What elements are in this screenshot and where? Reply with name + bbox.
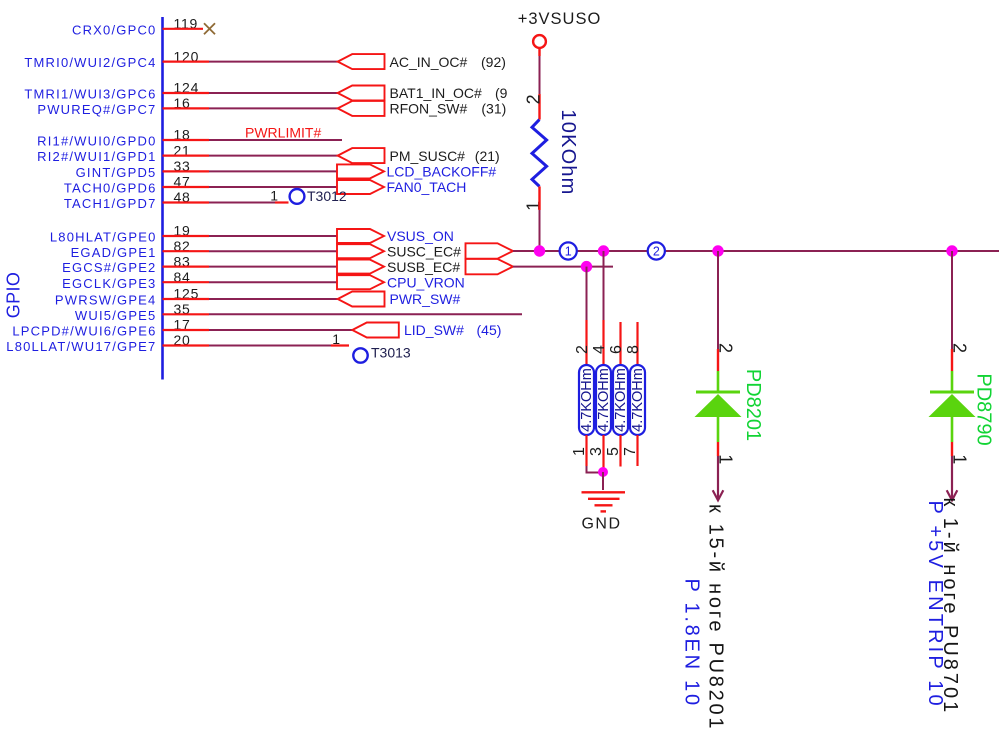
diode PD8790: [951, 251, 953, 349]
svg-text:PWR_SW#: PWR_SW#: [390, 291, 461, 307]
pin 33 GINT/GPD5 wire: [76, 158, 337, 180]
svg-text:PM_SUSC#: PM_SUSC#: [390, 148, 466, 164]
svg-text:L80LLAT/WU17/GPE7: L80LLAT/WU17/GPE7: [6, 339, 156, 354]
net arrow FAN0_TACH: [337, 180, 384, 194]
svg-text:PWUREQ#/GPC7: PWUREQ#/GPC7: [37, 102, 156, 117]
svg-text:1: 1: [270, 188, 278, 204]
svg-text:4.7KOHm: 4.7KOHm: [596, 368, 612, 432]
wire +3VSUSO to resistor pin 2: [538, 48, 540, 57]
junction dot resistor-pack pin2 tap: [581, 261, 592, 272]
ground symbol: [582, 491, 626, 493]
net arrow PWR_SW#: [338, 292, 385, 307]
svg-text:TMRI0/WUI2/GPC4: TMRI0/WUI2/GPC4: [24, 55, 156, 70]
junction dot diode PD8790 tap: [946, 245, 957, 256]
svg-text:LCD_BACKOFF#: LCD_BACKOFF#: [387, 164, 497, 180]
net arrow RFON_SW#: [338, 101, 385, 116]
pin 83 EGCS#/GPE2 wire: [62, 253, 337, 275]
resistor pack element 1 4.7KOHm: [579, 365, 594, 435]
main bus wire: [513, 250, 999, 252]
net arrow PM_SUSC#: [338, 148, 385, 163]
svg-text:10KOhm: 10KOhm: [557, 109, 579, 195]
svg-text:4.7KOHm: 4.7KOHm: [579, 368, 595, 432]
svg-text:BAT1_IN_OC#: BAT1_IN_OC#: [390, 85, 483, 101]
big arrow SUSC_EC# to bus: [466, 243, 514, 258]
svg-text:1: 1: [950, 454, 970, 464]
svg-text:2: 2: [653, 245, 660, 259]
net arrow BAT1_IN_OC#: [338, 86, 385, 101]
svg-text:EGCS#/GPE2: EGCS#/GPE2: [62, 260, 156, 275]
pin 16 PWUREQ#/GPC7 wire: [37, 95, 338, 117]
svg-text:+3VSUSO: +3VSUSO: [518, 10, 602, 28]
junction dot at resistor tap: [534, 245, 545, 256]
pin 21 RI2#/WUI1/GPD1 wire: [37, 142, 338, 164]
svg-text:CPU_VRON: CPU_VRON: [387, 274, 465, 290]
svg-text:2: 2: [574, 345, 591, 354]
svg-text:T3012: T3012: [307, 188, 347, 204]
svg-text:6: 6: [608, 345, 625, 354]
svg-text:PWRLIMIT#: PWRLIMIT#: [245, 124, 321, 140]
branch wire SUSB_EC#: [513, 266, 613, 268]
svg-text:L80HLAT/GPE0: L80HLAT/GPE0: [50, 230, 157, 245]
junction dot ground node: [598, 467, 608, 477]
svg-text:4.7KOHm: 4.7KOHm: [630, 368, 646, 432]
test point T3012: [290, 189, 305, 204]
diode PD8201: [717, 251, 719, 349]
net arrow VSUS_ON: [337, 229, 384, 243]
net arrow AC_IN_OC#: [338, 54, 385, 69]
svg-text:GPIO: GPIO: [4, 272, 24, 319]
svg-text:TACH0/GPD6: TACH0/GPD6: [64, 181, 157, 196]
svg-text:к 15-й ноге PU8201: к 15-й ноге PU8201: [705, 504, 727, 731]
pin 120 TMRI0/WUI2/GPC4 wire: [24, 48, 338, 70]
wire SUSB branch to RP pin 2: [586, 267, 588, 320]
svg-text:(31): (31): [481, 101, 506, 117]
svg-text:(21): (21): [475, 148, 500, 164]
svg-text:(9: (9: [495, 85, 508, 101]
resistor pack element 2 4.7KOHm: [596, 365, 611, 435]
wire ground node to GND symbol: [602, 472, 604, 490]
svg-text:FAN0_TACH: FAN0_TACH: [387, 179, 467, 195]
pin 35 WUI5/GPE5 long wire: [75, 301, 522, 323]
pin 17 LPCPD#/WUI6/GPE6 wire: [12, 317, 352, 339]
svg-text:LID_SW#: LID_SW#: [404, 322, 464, 338]
svg-text:LPCPD#/WUI6/GPE6: LPCPD#/WUI6/GPE6: [12, 324, 156, 339]
resistor pack element 3 4.7KOHm: [613, 365, 628, 435]
svg-text:2: 2: [523, 94, 543, 104]
wire resistor pin 1 to bus: [538, 186, 540, 210]
stub wire RP pin 8: [636, 322, 638, 365]
svg-text:GND: GND: [581, 516, 621, 533]
svg-text:AC_IN_OC#: AC_IN_OC#: [390, 54, 468, 70]
svg-text:2: 2: [950, 343, 970, 353]
svg-text:SUSB_EC#: SUSB_EC#: [387, 259, 460, 275]
net arrow SUSC_EC#: [337, 244, 384, 258]
svg-text:4.7KOHm: 4.7KOHm: [613, 368, 629, 432]
svg-text:1: 1: [716, 454, 736, 464]
svg-text:CRX0/GPC0: CRX0/GPC0: [72, 22, 157, 37]
svg-text:P 1.8EN 10: P 1.8EN 10: [681, 579, 703, 708]
pin 19 L80HLAT/GPE0 wire: [50, 223, 337, 245]
pin 84 EGCLK/GPE3 wire: [62, 269, 337, 291]
svg-text:TACH1/GPD7: TACH1/GPD7: [64, 196, 157, 211]
svg-text:GINT/GPD5: GINT/GPD5: [76, 165, 157, 180]
svg-text:(45): (45): [477, 322, 502, 338]
stub wire RP pin 7: [636, 435, 638, 466]
svg-text:1: 1: [565, 245, 572, 259]
junction dot diode PD8201 tap: [712, 245, 723, 256]
svg-text:2: 2: [716, 343, 736, 353]
GPIO bus line: [161, 17, 164, 380]
pin 125 PWRSW/GPE4 wire: [55, 286, 338, 308]
stub wire RP pin 6: [619, 322, 621, 365]
svg-text:TMRI1/WUI3/GPC6: TMRI1/WUI3/GPC6: [24, 87, 156, 102]
net arrow CPU_VRON: [337, 275, 384, 289]
pin 82 EGAD/GPE1 wire: [71, 238, 337, 260]
power terminal circle: [533, 35, 546, 48]
svg-text:SUSC_EC#: SUSC_EC#: [387, 243, 461, 259]
svg-text:8: 8: [625, 345, 642, 354]
pin 20 L80LLAT/WU17/GPE7 wire to test point: [6, 331, 349, 354]
svg-text:P +5V ENTRIP 10: P +5V ENTRIP 10: [924, 501, 946, 709]
junction dot resistor-pack pin4 tap: [598, 245, 609, 256]
svg-text:(92): (92): [481, 54, 506, 70]
svg-text:RFON_SW#: RFON_SW#: [390, 101, 468, 117]
svg-text:RI1#/WUI0/GPD0: RI1#/WUI0/GPD0: [37, 134, 156, 149]
svg-text:4: 4: [591, 345, 608, 354]
net arrow LID_SW#: [352, 323, 399, 338]
big arrow SUSB_EC# to branch: [466, 259, 514, 274]
wire RP pin 3 to ground node: [602, 435, 604, 470]
resistor pack element 4 4.7KOHm: [630, 365, 645, 435]
test point T3013: [353, 348, 367, 362]
pin 48 TACH1/GPD7 wire to test point: [64, 188, 289, 212]
svg-text:VSUS_ON: VSUS_ON: [387, 228, 454, 244]
pin 119 CRX0/GPC0 wire with no-connect X: [72, 16, 215, 38]
svg-text:EGAD/GPE1: EGAD/GPE1: [71, 245, 157, 260]
wire bus to RP pin 4: [603, 251, 605, 320]
net arrow SUSB_EC#: [337, 260, 384, 274]
circled node 1: [560, 242, 577, 259]
net arrow LCD_BACKOFF#: [337, 164, 384, 178]
pin 18 RI1#/WUI0/GPD0 wire: [37, 127, 342, 149]
pin 124 TMRI1/WUI3/GPC6 wire: [24, 80, 338, 102]
pin 47 TACH0/GPD6 wire: [64, 174, 337, 196]
svg-text:PD8201: PD8201: [742, 369, 764, 441]
svg-text:PD8790: PD8790: [973, 373, 995, 445]
svg-text:RI2#/WUI1/GPD1: RI2#/WUI1/GPD1: [37, 149, 156, 164]
svg-text:1: 1: [332, 331, 340, 347]
circled node 2: [648, 242, 665, 259]
svg-text:WUI5/GPE5: WUI5/GPE5: [75, 308, 157, 323]
svg-text:T3013: T3013: [371, 345, 411, 361]
svg-text:EGCLK/GPE3: EGCLK/GPE3: [62, 276, 156, 291]
resistor 10KOhm zigzag: [532, 120, 547, 187]
svg-text:PWRSW/GPE4: PWRSW/GPE4: [55, 293, 157, 308]
stub wire RP pin 5: [619, 435, 621, 467]
wire RP pin 1 to ground node: [585, 435, 587, 466]
